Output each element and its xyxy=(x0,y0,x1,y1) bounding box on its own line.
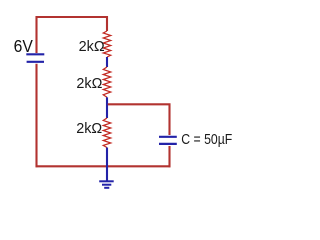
wire: bottom rail xyxy=(36,165,171,167)
resistor R3 2kΩ xyxy=(103,118,111,148)
capacitor C bottom plate xyxy=(159,143,177,145)
battery V1 (6V) top plate xyxy=(26,53,44,55)
wire: red branch from node to capacitor top xyxy=(108,104,170,135)
resistor R2 2kΩ xyxy=(103,67,111,97)
wire: red from capacitor bottom to bottom rail xyxy=(168,146,170,167)
resistor R1 2kΩ xyxy=(103,31,111,57)
wire: blue segment from R3 down to ground xyxy=(106,148,108,182)
wire: top loop from battery + up and across to resistor chain xyxy=(37,17,108,53)
battery V1 (6V) bottom plate xyxy=(27,61,44,63)
wire: blue segment between R2 and R3 (node to capacitor branch) xyxy=(106,97,108,118)
svg-text:6V: 6V xyxy=(14,36,33,56)
wire: left side from battery - down to bottom rail xyxy=(35,64,37,168)
ground xyxy=(99,181,114,188)
svg-text:2kΩ: 2kΩ xyxy=(76,75,102,92)
capacitor C top plate xyxy=(159,136,177,138)
wire: blue segment between R1 and R2 xyxy=(106,57,108,67)
svg-text:2kΩ: 2kΩ xyxy=(76,120,102,137)
svg-text:2kΩ: 2kΩ xyxy=(79,38,105,55)
svg-text:C = 50µF: C = 50µF xyxy=(181,131,232,148)
